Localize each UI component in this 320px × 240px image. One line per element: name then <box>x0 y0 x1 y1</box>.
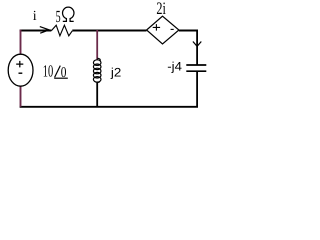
wire middle vertical (top rail junction down to inductor) <box>96 30 98 60</box>
inductor j2 coil <box>93 58 101 82</box>
capacitor C1 bottom plate <box>186 70 206 72</box>
wire below inductor to bottom rail <box>96 82 98 107</box>
svg-text:2i: 2i <box>156 0 166 18</box>
wire left vertical upper (corner to source top) <box>20 30 22 55</box>
svg-text:-j4: -j4 <box>167 59 182 73</box>
resistor R 5ohm zigzag <box>51 25 72 36</box>
wire top rail right (diamond right vertex to top-right corner) <box>179 30 198 32</box>
svg-text:10: 10 <box>43 61 54 80</box>
current arrow down on right wire <box>193 42 201 47</box>
svg-text:j2: j2 <box>110 66 122 80</box>
capacitor C1 top plate <box>186 64 206 66</box>
dependent source U1 diamond 2i <box>147 16 179 44</box>
wire bottom rail <box>20 106 198 108</box>
voltage source V1 ellipse <box>8 54 33 86</box>
wire right vertical (corner down to capacitor) <box>196 30 198 65</box>
voltage source plus sign <box>16 61 23 68</box>
dependent source plus sign <box>153 24 160 31</box>
svg-text:i: i <box>33 9 37 24</box>
wire top rail middle (resistor to diamond left vertex) <box>72 30 146 32</box>
voltage source minus sign <box>19 72 23 74</box>
angle slash of phasor notation <box>55 66 61 78</box>
dependent source minus sign <box>171 28 174 30</box>
svg-text:5: 5 <box>56 7 61 26</box>
current arrow i on top-left wire <box>40 27 50 34</box>
underline of phasor angle <box>54 77 68 79</box>
wire left vertical lower (source bottom to bottom rail) <box>20 86 22 107</box>
wire below capacitor to bottom rail <box>196 72 198 107</box>
wire top rail left segment (source top to diamond) with resistor gap <box>20 30 52 32</box>
